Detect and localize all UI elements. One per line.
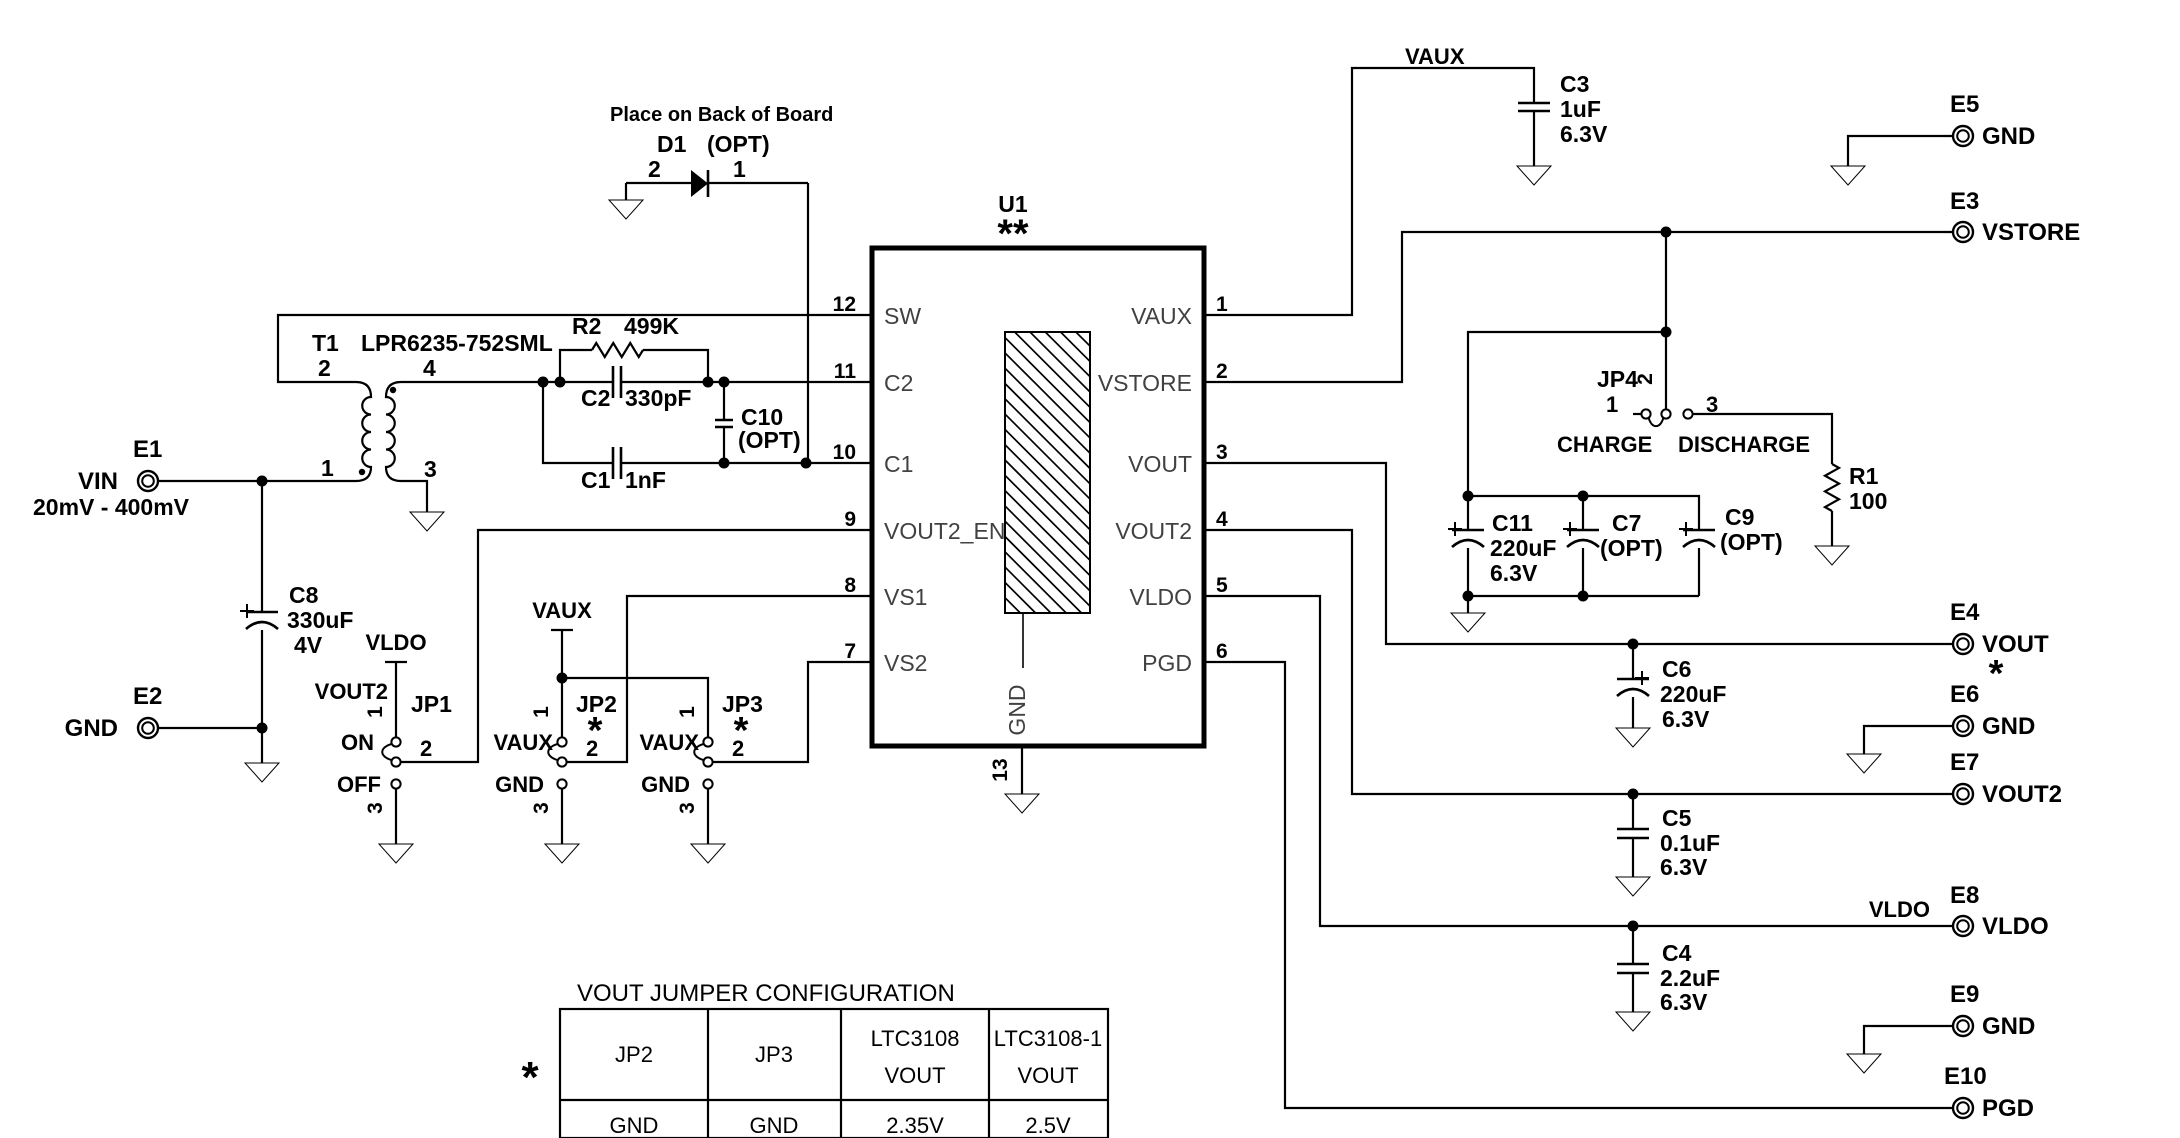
ground at E5 [1831,166,1865,185]
wire JP1 pin 3 to ground [395,789,397,844]
svg-text:3: 3 [530,802,553,814]
ground below JP3 [691,844,725,863]
svg-text:6.3V: 6.3V [1660,854,1708,880]
wire VOUT2 net [1204,530,1952,794]
wire T1 pin 2 to SW net [278,315,872,382]
svg-text:C5: C5 [1662,805,1692,831]
resistor R1 100 [1825,463,1887,546]
junction C7 bottom [1578,591,1589,602]
svg-text:5: 5 [1216,574,1228,597]
svg-text:6.3V: 6.3V [1490,560,1538,586]
svg-text:C2: C2 [581,385,610,411]
U1 internal hatched block [724,332,1357,613]
svg-text:VOUT2_EN: VOUT2_EN [884,518,1005,544]
capacitor C1 1nF [581,447,666,493]
jumper JP3 [640,691,763,814]
U1 pin 13 GND stub [989,746,1022,794]
svg-text:R2: R2 [572,313,601,339]
wire PGD net [1204,662,1952,1108]
wire JP1 pin 2 to VOUT2_EN [401,530,872,762]
ground below JP1 [379,844,413,863]
table asterisk [521,1053,539,1102]
svg-text:6: 6 [1216,640,1228,663]
terminal E7 VOUT2 [1950,749,2062,808]
svg-text:VLDO: VLDO [1869,897,1930,922]
svg-text:E6: E6 [1950,681,1979,708]
svg-text:2: 2 [1216,360,1228,383]
svg-text:GND: GND [750,1113,799,1138]
terminal E4 VOUT [1950,599,2049,695]
svg-text:C3: C3 [1560,71,1589,97]
svg-text:Place on Back of Board: Place on Back of Board [610,104,833,126]
svg-text:C9: C9 [1725,504,1754,530]
wire E2 to junction [158,727,262,729]
svg-text:100: 100 [1849,488,1887,514]
resistor R2 499K [560,313,708,382]
svg-text:VAUX: VAUX [532,598,592,623]
svg-text:1: 1 [676,706,699,718]
ground below C3 [1517,166,1551,185]
svg-text:220uF: 220uF [1660,681,1726,707]
svg-text:VOUT: VOUT [1017,1063,1078,1088]
capacitor C4 2.2uF 6.3V [1617,926,1720,1015]
svg-text:VSTORE: VSTORE [1098,370,1192,396]
svg-text:VOUT: VOUT [884,1063,945,1088]
svg-text:VOUT2: VOUT2 [315,679,388,704]
svg-text:C4: C4 [1662,940,1692,966]
svg-text:LPR6235-752SML: LPR6235-752SML [361,330,553,356]
wire cap bank to ground [1467,596,1469,613]
capacitor C2 330pF [581,366,691,411]
svg-text:E5: E5 [1950,91,1979,118]
terminal E8 VLDO [1950,882,2049,940]
U1 right pin names and numbers [1098,293,1228,676]
svg-text:330uF: 330uF [287,607,353,633]
svg-text:9: 9 [844,508,856,531]
svg-text:E4: E4 [1950,599,1980,626]
net stub VAUX at JP2 [532,598,592,737]
capacitor C8 330uF 4V [240,582,353,658]
junction VAUX branch [557,673,568,684]
svg-text:R1: R1 [1849,463,1879,489]
wire C1 net [543,382,872,463]
svg-text:1: 1 [364,706,387,718]
wire cap bank branch [1468,332,1666,496]
svg-text:CHARGE: CHARGE [1557,432,1652,457]
wire VSTORE net [1204,232,1952,382]
label Place on Back of Board [610,104,833,126]
terminal E5 GND [1950,91,2035,150]
svg-text:2.2uF: 2.2uF [1660,965,1720,991]
svg-text:E8: E8 [1950,882,1979,909]
svg-text:**: ** [997,212,1029,256]
wire T1 pin 3 to ground [401,481,427,512]
junction C5 [1628,789,1639,800]
svg-text:VLDO: VLDO [1982,913,2049,940]
table VOUT JUMPER CONFIGURATION title [577,980,955,1007]
svg-text:2: 2 [1634,373,1657,385]
terminal E10 PGD [1944,1063,2034,1122]
ground below cap bank [1451,613,1485,632]
U1 left pin names and numbers [833,293,1006,676]
capacitor C9 (OPT) [1679,504,1783,596]
svg-text:E3: E3 [1950,188,1979,215]
ground below C4 [1616,1012,1650,1031]
ground below C8 [245,763,279,782]
svg-text:1nF: 1nF [625,467,666,493]
wire JP2 pin 3 to ground [561,789,563,844]
jumper JP2 [494,691,617,814]
svg-text:C2: C2 [884,370,913,396]
svg-text:GND: GND [495,772,544,797]
svg-text:LTC3108-1: LTC3108-1 [994,1026,1102,1051]
svg-text:VIN: VIN [78,468,118,495]
wire JP4 pin 3 to R1 [1693,414,1832,464]
capacitor C5 0.1uF 6.3V [1617,794,1720,880]
svg-text:11: 11 [834,360,857,383]
terminal E6 GND [1950,681,2035,740]
terminal E3 VSTORE [1950,188,2080,246]
svg-text:VAUX: VAUX [1405,44,1465,69]
net label VLDO at E8 [1869,897,1930,922]
capacitor C6 220uF 6.3V [1617,644,1726,732]
svg-text:2: 2 [586,736,598,761]
svg-text:2: 2 [732,736,744,761]
svg-text:C11: C11 [1492,510,1533,536]
wire E9 to ground [1864,1026,1953,1054]
svg-text:1: 1 [733,156,746,182]
table grid [560,1009,1108,1138]
svg-text:PGD: PGD [1982,1095,2034,1122]
svg-text:8: 8 [844,574,856,597]
svg-text:2.5V: 2.5V [1025,1113,1071,1138]
junction VSTORE/JP4 [1661,227,1672,238]
net stub VLDO at JP1 [365,630,426,737]
svg-text:VS2: VS2 [884,650,927,676]
terminal E9 GND [1950,981,2035,1040]
svg-text:1: 1 [1216,293,1228,316]
svg-text:ON: ON [341,730,374,755]
svg-text:E7: E7 [1950,749,1979,776]
svg-text:1uF: 1uF [1560,96,1601,122]
wire E6 to ground [1864,726,1953,754]
svg-text:VOUT2: VOUT2 [1115,518,1192,544]
svg-text:10: 10 [833,441,856,464]
svg-text:C1: C1 [581,467,611,493]
svg-text:VAUX: VAUX [1131,303,1192,329]
svg-text:JP1: JP1 [411,691,452,717]
svg-text:T1: T1 [312,330,339,356]
wire E1 to T1 pin 1 [158,480,356,482]
svg-text:12: 12 [833,293,856,316]
svg-text:PGD: PGD [1142,650,1192,676]
svg-text:VAUX: VAUX [640,730,700,755]
capacitor C3 1uF 6.3V [1518,71,1608,166]
svg-text:(OPT): (OPT) [1720,529,1783,555]
svg-text:2: 2 [648,156,661,182]
svg-text:VLDO: VLDO [1129,584,1192,610]
svg-text:GND: GND [1004,684,1030,735]
svg-text:VLDO: VLDO [365,630,426,655]
wire T1 pin 4 (C2 net) [401,381,872,383]
wire to ground [261,728,263,763]
wire JP3 pin 2 to VS2 [713,662,872,762]
svg-text:C6: C6 [1662,656,1691,682]
wire VLDO net [1204,596,1952,926]
wire VSTORE down to JP4 [1665,232,1667,409]
ground at U1 pin 13 [1005,794,1039,813]
svg-text:VOUT JUMPER CONFIGURATION: VOUT JUMPER CONFIGURATION [577,980,955,1007]
junction C10 top [719,377,730,388]
junction C7 top [1578,491,1589,502]
svg-text:20mV - 400mV: 20mV - 400mV [33,494,190,520]
svg-text:3: 3 [1216,441,1228,464]
junction E2/C8/gnd [257,723,268,734]
svg-text:1: 1 [321,455,334,481]
svg-text:4V: 4V [294,632,323,658]
svg-text:7: 7 [844,640,856,663]
svg-text:330pF: 330pF [625,385,691,411]
svg-text:C7: C7 [1612,510,1641,536]
wire VAUX net [1204,68,1534,315]
svg-text:*: * [521,1053,539,1102]
ground at E6 [1847,754,1881,773]
svg-text:D1: D1 [657,131,687,157]
junction R2 left [555,377,566,388]
U1 internal GND lead [1004,613,1030,736]
jumper JP1 [315,679,452,814]
table cells row 2 [610,1113,1071,1138]
junction D1/C1 [801,458,812,469]
svg-text:(OPT): (OPT) [1600,535,1663,561]
svg-text:OFF: OFF [337,772,381,797]
ground below R1 [1815,546,1849,565]
svg-text:2.35V: 2.35V [886,1113,944,1138]
svg-text:E9: E9 [1950,981,1979,1008]
junction C10 bottom [719,458,730,469]
ground below JP2 [545,844,579,863]
diode D1 (OPT) [626,131,808,197]
svg-text:VS1: VS1 [884,584,927,610]
junction pin4/C1 drop [538,377,549,388]
wire C8 branch [261,481,263,728]
svg-text:VSTORE: VSTORE [1982,219,2080,246]
terminal E1 VIN [33,436,190,520]
svg-text:3: 3 [424,456,437,482]
svg-text:GND: GND [641,772,690,797]
wire E5 to ground [1848,136,1953,166]
svg-text:JP3: JP3 [755,1042,793,1067]
svg-text:C1: C1 [884,451,913,477]
capacitor C10 (OPT) [715,382,801,463]
junction cap bank branch [1661,327,1672,338]
svg-text:E1: E1 [133,436,162,463]
svg-text:DISCHARGE: DISCHARGE [1678,432,1810,457]
svg-text:LTC3108: LTC3108 [871,1026,960,1051]
svg-text:13: 13 [989,758,1012,781]
junction C11 top [1463,491,1474,502]
wire D1 pin 2 to ground [625,183,627,200]
svg-text:GND: GND [65,715,118,742]
svg-text:C8: C8 [289,582,319,608]
svg-text:JP2: JP2 [615,1042,653,1067]
svg-text:4: 4 [1216,508,1228,531]
svg-text:JP4: JP4 [1597,366,1638,392]
wire JP2 pin 2 to VS1 [567,596,872,762]
ground at T1 pin 3 [410,512,444,531]
wire VOUT net [1204,463,1952,644]
svg-text:E2: E2 [133,683,162,710]
svg-text:1: 1 [530,706,553,718]
transformer T1 LPR6235-752SML [312,330,553,482]
svg-text:VOUT2: VOUT2 [1982,781,2062,808]
op-amp U1 LTC3108 body [872,191,1204,746]
svg-text:(OPT): (OPT) [707,131,770,157]
svg-text:VOUT: VOUT [1128,451,1192,477]
svg-text:1: 1 [1606,392,1618,417]
svg-text:3: 3 [676,802,699,814]
svg-text:6.3V: 6.3V [1560,121,1608,147]
svg-text:E10: E10 [1944,1063,1987,1090]
svg-text:2: 2 [420,736,432,761]
svg-text:499K: 499K [624,313,679,339]
wire cap bank top rail [1468,496,1699,530]
ground below C6 [1616,728,1650,747]
svg-text:VAUX: VAUX [494,730,554,755]
svg-text:6.3V: 6.3V [1662,706,1710,732]
capacitor C11 220uF 6.3V [1448,496,1556,596]
svg-text:2: 2 [318,355,331,381]
wire D1 pin 1 down to C1 net [807,183,809,463]
junction E1/C8 [257,476,268,487]
svg-text:220uF: 220uF [1490,535,1556,561]
junction C4 [1628,921,1639,932]
junction C11 bottom [1463,591,1474,602]
capacitor C7 (OPT) [1563,496,1663,596]
svg-text:SW: SW [884,303,921,329]
svg-text:GND: GND [1982,1013,2035,1040]
wire JP3 pin 3 to ground [707,789,709,844]
ground at D1 [609,200,643,219]
junction R2 right [703,377,714,388]
svg-text:GND: GND [1982,713,2035,740]
net label VAUX [1405,44,1465,69]
svg-text:GND: GND [1982,123,2035,150]
svg-text:3: 3 [364,802,387,814]
svg-text:(OPT): (OPT) [738,427,801,453]
svg-text:6.3V: 6.3V [1660,989,1708,1015]
jumper JP4 [1557,366,1810,457]
ground below C5 [1616,877,1650,896]
junction C6 [1628,639,1639,650]
svg-text:0.1uF: 0.1uF [1660,830,1720,856]
terminal E2 GND [65,683,163,742]
wire cap bank bottom rail [1468,595,1699,597]
table cells row 1 [615,1026,1102,1088]
wire VAUX branch to JP3 pin 1 [562,678,708,737]
ground at E9 [1847,1054,1881,1073]
svg-text:*: * [1989,653,2004,695]
svg-text:GND: GND [610,1113,659,1138]
svg-text:4: 4 [423,355,436,381]
